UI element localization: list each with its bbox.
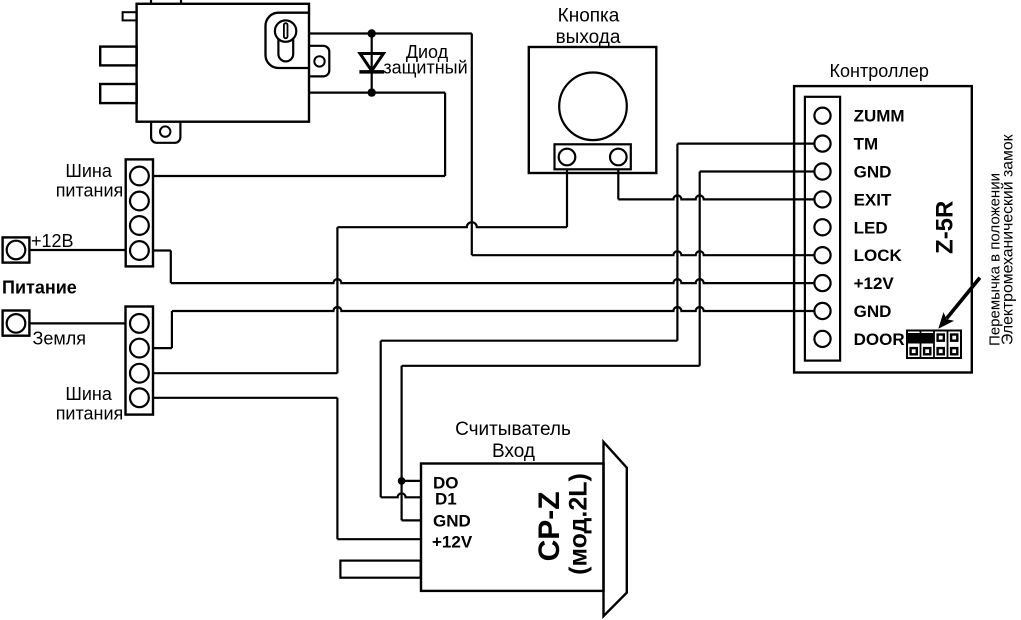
svg-text:EXIT: EXIT xyxy=(854,190,892,209)
wire: reader +12V stub xyxy=(337,538,421,540)
wire: DO stub xyxy=(402,480,421,482)
terminal LOCK xyxy=(814,247,830,263)
svg-text:GND: GND xyxy=(433,512,471,531)
exit button terminal strip xyxy=(555,144,631,169)
electromechanical lock body xyxy=(137,4,309,122)
wire: LOCK wire with hops xyxy=(472,251,815,255)
terminal TM xyxy=(814,136,830,152)
terminal DOOR xyxy=(814,331,830,347)
GND input circle xyxy=(7,314,26,333)
wire: TM to D1 horizontal xyxy=(381,340,678,342)
reader pin labels xyxy=(432,474,473,552)
terminal labels xyxy=(854,107,905,349)
wire: +12V wire with hops xyxy=(171,279,815,283)
diode junction dot top xyxy=(368,29,376,37)
reader 3D flap xyxy=(604,442,627,616)
jumper pin centers xyxy=(912,336,956,353)
wire: GND to reader horizontal xyxy=(402,365,700,367)
arrow to jumper xyxy=(947,278,980,319)
upper bus circle 3 xyxy=(130,216,149,235)
exit button circle xyxy=(559,73,627,141)
terminal EXIT xyxy=(814,191,830,207)
wire: DO/GND vertical xyxy=(401,366,403,521)
svg-text:DOOR: DOOR xyxy=(854,330,905,349)
svg-text:питания: питания xyxy=(56,404,124,424)
jumper cap (black, over first two columns) xyxy=(908,333,934,344)
lower bus circle 2 xyxy=(130,339,149,358)
reader CP-Z box xyxy=(421,464,604,591)
svg-text:D1: D1 xyxy=(435,490,457,509)
lock key circle xyxy=(275,20,296,41)
svg-text:Вход: Вход xyxy=(492,441,535,462)
diode junction dot bottom xyxy=(368,88,376,96)
terminal LED xyxy=(814,219,830,235)
wire: reader +12V vertical xyxy=(336,398,338,539)
svg-text:выхода: выхода xyxy=(556,27,621,48)
+12V input circle xyxy=(7,241,26,260)
wire: lock terminal 2 to diode bottom and right xyxy=(309,91,445,93)
exit button terminal left xyxy=(559,149,576,166)
svg-text:защитный: защитный xyxy=(383,58,467,78)
svg-text:Земля: Земля xyxy=(33,328,87,348)
svg-text:Шина: Шина xyxy=(65,161,112,181)
diode symbol xyxy=(360,54,384,71)
wire: EXIT wire with hops xyxy=(618,195,815,199)
junction dot DO xyxy=(398,477,406,485)
lock right tab hole xyxy=(314,56,324,66)
svg-text:GND: GND xyxy=(854,302,892,321)
+12V input square xyxy=(3,237,30,262)
wire: GND wire xyxy=(700,170,815,172)
svg-text:питания: питания xyxy=(56,181,124,201)
lower bus circle 3 xyxy=(130,364,149,383)
jumper block on controller xyxy=(907,331,961,359)
lock bolt 1 xyxy=(100,47,136,66)
lower bus circle 1 xyxy=(130,314,149,333)
wire: lock vertical down to LOCK row xyxy=(471,34,473,256)
upper bus circle 2 xyxy=(130,192,149,211)
svg-text:Электромеханический замок: Электромеханический замок xyxy=(1000,134,1017,345)
controller terminal strip xyxy=(805,97,840,361)
lock right mounting tab xyxy=(309,46,329,77)
wire: button left to ground bus vertical (hop over lock vertical) xyxy=(337,222,567,227)
wire: GND vertical down xyxy=(699,172,701,366)
svg-text:+12В: +12В xyxy=(31,231,74,251)
wire: GND2 wire with hops xyxy=(172,307,815,311)
exit button box xyxy=(529,47,657,173)
lock cylinder plate xyxy=(266,13,310,68)
terminal ZUMM xyxy=(814,108,830,124)
terminal GND xyxy=(814,163,830,179)
svg-text:+12V: +12V xyxy=(854,274,895,293)
wire: +12V vertical from upper bus c4 xyxy=(170,251,172,284)
terminal +12V xyxy=(814,275,830,291)
wire: rail to upper power bus circle 1 xyxy=(153,175,445,177)
wire: lower bus c2 to vertical xyxy=(153,347,172,349)
wire: lower bus c4 to reader +12V vertical xyxy=(153,397,337,399)
lock bolt 2 xyxy=(100,84,136,103)
wire: lock terminal 1 to lock vertical xyxy=(309,32,472,34)
upper bus circle 1 xyxy=(130,167,149,186)
lock bottom mounting tab xyxy=(151,122,180,143)
protective diode vertical xyxy=(371,34,373,93)
wire: GND input to lower bus xyxy=(29,322,125,324)
terminal GND2 xyxy=(814,303,830,319)
wire: GND2 vertical from lower bus c2 xyxy=(171,311,173,348)
wire: reader GND stub xyxy=(402,519,421,521)
svg-text:LED: LED xyxy=(854,218,888,237)
exit button terminal right xyxy=(610,149,627,166)
lock top tab (cut off at image top) xyxy=(151,0,181,4)
wire: ground bus vertical up from lower bus c3 xyxy=(336,227,338,373)
wire: D1 into reader (hop over DO vertical) xyxy=(381,493,421,497)
upper power bus terminal block xyxy=(126,159,153,266)
wire: TM vertical down xyxy=(676,144,678,341)
svg-text:LOCK: LOCK xyxy=(854,246,903,265)
wire: vertical to power bus rail xyxy=(444,93,446,176)
reader cable stub rectangle xyxy=(340,561,420,578)
svg-text:GND: GND xyxy=(854,163,892,182)
svg-text:Считыватель: Считыватель xyxy=(455,419,571,440)
svg-text:Контроллер: Контроллер xyxy=(830,61,929,81)
svg-text:Z-5R: Z-5R xyxy=(932,201,959,254)
lock cylinder pill xyxy=(278,31,293,61)
lower bus circle 4 xyxy=(130,388,149,407)
svg-text:Шина: Шина xyxy=(65,384,112,404)
GND (Земля) input square xyxy=(3,311,30,336)
wire: button left terminal down xyxy=(566,169,568,227)
svg-text:Кнопка: Кнопка xyxy=(558,6,620,27)
lower power bus terminal block xyxy=(126,307,154,415)
upper bus circle 4 xyxy=(130,241,149,260)
wire: D1 vertical xyxy=(380,341,382,498)
controller Z-5R outer box xyxy=(794,86,972,372)
svg-text:CP-Z: CP-Z xyxy=(533,491,566,561)
jumper pins (8-pin header) xyxy=(909,333,958,355)
wire: upper bus c4 to vertical xyxy=(153,249,171,251)
svg-text:(мод.2L): (мод.2L) xyxy=(564,473,592,575)
wire: button right terminal down xyxy=(617,169,619,199)
svg-text:ZUMM: ZUMM xyxy=(854,107,905,126)
svg-text:TM: TM xyxy=(854,135,879,154)
svg-text:Питание: Питание xyxy=(2,277,77,297)
svg-text:+12V: +12V xyxy=(432,532,473,551)
lock left small stub xyxy=(123,12,137,20)
wire: TM wire xyxy=(677,143,815,145)
wire: +12V input to upper bus xyxy=(29,249,125,251)
wire: lower bus c3 to ground vertical xyxy=(153,372,337,374)
lock bottom tab hole xyxy=(160,126,170,136)
lock key slot xyxy=(284,23,288,38)
